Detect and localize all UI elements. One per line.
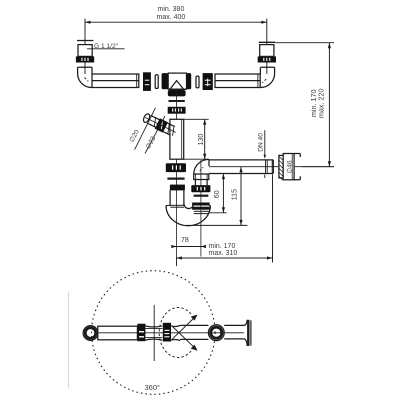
bottom view left pipe [98,326,138,340]
label dia 23 (rotated) [145,135,157,150]
bottom view nut 1 [137,324,145,342]
bottom view right pipe [180,325,208,339]
left gasket [155,75,158,89]
tee outlet nut [168,107,186,114]
rotation circle (dotted) [92,271,216,395]
label 60 (rotated) [214,190,221,198]
bottom view ball joint [171,325,180,340]
left elbow [78,67,92,87]
label 130 (rotated) [198,134,205,146]
svg-text:130: 130 [198,134,205,146]
main vertical pipe centerline [175,92,177,266]
branch end ellipse [142,113,151,124]
tee bottom collar [168,90,186,96]
left pipe nut [143,72,151,91]
right horizontal pipe [215,74,260,88]
rotation arrows [159,307,197,357]
branch extension line A [135,108,156,150]
svg-text:∅46: ∅46 [286,160,293,173]
78 dimension [171,245,206,248]
svg-text:78: 78 [181,237,189,244]
outlet elbow [194,159,209,173]
U-bend inner [184,204,194,209]
svg-text:∅23: ∅23 [145,135,157,150]
trap inlet hatch ring [170,205,184,207]
label dia 46 (rotated) [286,160,293,173]
bottom view pipe to trumpet [224,325,244,339]
trap right leg pipe [195,180,207,186]
trap right leg nut [191,185,210,192]
outlet horizontal pipe [209,160,334,174]
bottom view vertical centerline [153,305,155,361]
trap right leg centerline [200,160,202,257]
bottom view right wall washer [208,325,224,341]
left tailpiece nut [76,56,94,62]
branch extension line B [145,116,165,154]
branch junction [163,123,174,135]
right pipe nut [203,73,213,90]
label min.380 max.400 [157,6,186,21]
node left tailpiece centerline [84,19,86,75]
left tailpiece pipe [78,45,92,57]
right tailpiece pipe [260,45,274,57]
label 115 (rotated) [231,189,238,200]
bottom view axis line [98,332,244,334]
top dimension min.380/max.400 dimension line [85,21,267,24]
label 78 [181,237,189,244]
trap right leg ribs [194,211,209,213]
wall connection flange [279,154,300,181]
branch nut [155,118,168,132]
svg-text:max. 310: max. 310 [209,250,238,257]
bottom view nut 2 [163,323,171,342]
trap right leg ribbed coupling [192,203,210,210]
G 1 1/2" label [94,43,119,50]
svg-text:360°: 360° [145,383,161,392]
right elbow [260,67,274,87]
left tailpiece flange [77,40,93,42]
bottom view left wall washer [83,326,98,341]
trap right leg washer [194,195,209,197]
bottom view joint section [145,326,162,340]
main vertical pipe [170,119,184,159]
page margin faint line [68,292,70,388]
diagonal branch inlet [142,112,179,138]
right tailpiece flange [259,41,275,43]
node right tailpiece centerline [266,19,268,75]
trap inlet washer [167,178,184,180]
label min.170 max.310 [209,243,238,257]
trap inlet lock nut [170,185,185,191]
svg-text:115: 115 [231,189,238,200]
tee U1 body [162,73,192,89]
svg-text:max. 400: max. 400 [157,14,186,21]
left horizontal pipe [92,74,139,88]
outlet elbow flange [194,174,209,180]
trap inlet nut [166,163,186,172]
extension stub below trap centerline [175,258,177,266]
right dimension min.170/max.220 [275,43,334,167]
U-bend outer [166,206,210,226]
svg-text:max. 220: max. 220 [317,89,326,119]
DN 40 leader [264,130,267,178]
trap inlet pipe [170,190,184,206]
washer under collar [169,100,185,102]
svg-text:60: 60 [214,190,221,198]
bottom view trumpet flange [244,320,251,346]
svg-text:min. 170: min. 170 [209,243,236,250]
right tailpiece nut [258,56,276,62]
label min.170 max.220 (rotated) [309,89,326,119]
label DN 40 (rotated) [257,133,264,152]
svg-text:DN 40: DN 40 [257,133,264,152]
115 dimension [185,167,247,226]
branch pipe body [147,115,163,129]
130 dimension [184,119,209,159]
label dia 20 (rotated) [129,128,141,143]
right gasket [196,76,199,88]
label 360 [145,383,161,392]
bottom dimension min.170/max.310 [176,175,272,263]
svg-text:min. 380: min. 380 [158,6,185,13]
60 dimension [209,174,227,213]
branch axis [145,117,176,132]
